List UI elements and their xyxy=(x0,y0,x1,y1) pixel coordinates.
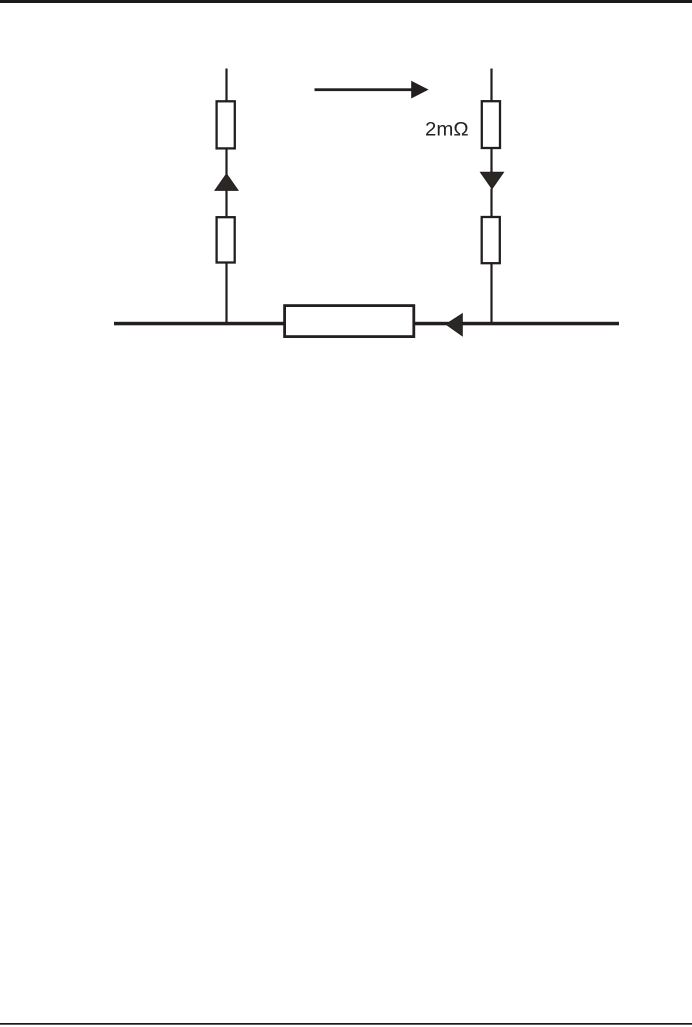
wire: right branch bottom lead xyxy=(490,263,492,324)
wire: left branch top lead xyxy=(225,69,227,103)
svg-text:2mΩ: 2mΩ xyxy=(425,120,469,141)
wire: right branch top lead xyxy=(490,69,492,103)
current direction arrow (top, pointing right) xyxy=(315,81,429,99)
resistor 2mΩ (right branch, upper) xyxy=(482,101,500,148)
wire: right branch between upper resistor and arrow xyxy=(490,148,492,174)
arrowhead left (bottom wire current direction) xyxy=(446,314,462,336)
resistor (bottom, horizontal) xyxy=(285,306,414,337)
arrowhead down (right branch current direction) xyxy=(481,172,504,189)
wire: right branch between arrow and lower resistor xyxy=(490,189,492,219)
arrowhead up (left branch current direction) xyxy=(215,174,238,191)
wire: bottom horizontal bus xyxy=(114,322,619,326)
resistor (right branch, lower) xyxy=(482,217,500,263)
resistor (left branch, upper) xyxy=(217,101,235,148)
resistor (left branch, lower) xyxy=(217,217,235,262)
bottom page rule xyxy=(0,1023,692,1025)
top page rule xyxy=(0,0,692,3)
wire: left branch bottom lead xyxy=(225,263,227,325)
wire: left branch between upper resistor and arrow xyxy=(225,148,227,176)
wire: left branch between arrow and lower resistor xyxy=(225,190,227,218)
